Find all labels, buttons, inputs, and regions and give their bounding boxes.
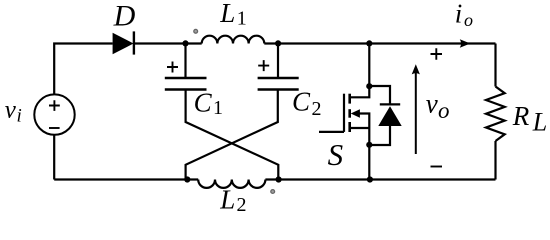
- svg-text:L: L: [219, 0, 235, 28]
- svg-text:i: i: [455, 0, 463, 29]
- svg-text:2: 2: [312, 98, 322, 120]
- svg-text:1: 1: [213, 97, 223, 119]
- svg-text:o: o: [438, 98, 450, 123]
- svg-text:v: v: [5, 96, 17, 123]
- svg-text:2: 2: [237, 194, 247, 216]
- svg-text:L: L: [219, 185, 235, 215]
- svg-text:L: L: [532, 108, 547, 137]
- svg-text:C: C: [292, 87, 311, 117]
- svg-text:R: R: [512, 101, 530, 131]
- svg-text:1: 1: [237, 8, 247, 30]
- svg-text:D: D: [113, 0, 136, 33]
- svg-text:i: i: [17, 105, 22, 126]
- svg-text:C: C: [194, 87, 213, 117]
- svg-text:o: o: [464, 10, 473, 30]
- svg-text:S: S: [328, 137, 344, 172]
- svg-text:v: v: [426, 89, 438, 119]
